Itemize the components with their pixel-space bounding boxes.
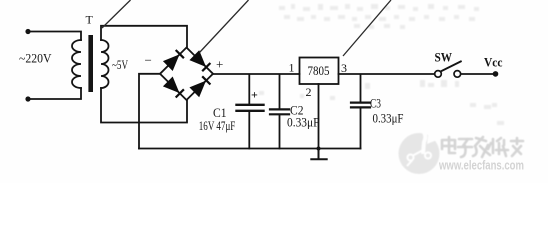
svg-text:7805: 7805 (308, 64, 330, 78)
svg-text:~5V: ~5V (112, 58, 128, 72)
node: Vcc terminal dot (493, 71, 499, 77)
leader line to bridge (200, 0, 249, 53)
svg-text:SW: SW (435, 51, 453, 65)
diode D3 (left corner to bottom corner) (164, 77, 184, 97)
switch SW contact circles (435, 71, 442, 78)
transformer T core (88, 35, 93, 92)
svg-text:0.33μF: 0.33μF (373, 112, 404, 126)
node: AC input terminal top (25, 29, 30, 34)
svg-text:C1: C1 (213, 106, 227, 120)
capacitor C1 leads (248, 75, 250, 149)
svg-text:+: + (216, 57, 223, 72)
diode D2 (top corner to right corner) (190, 51, 210, 71)
svg-text:C3: C3 (370, 97, 381, 111)
wire: 7805 pin2 down to rail (318, 84, 320, 149)
svg-text:2: 2 (306, 85, 312, 99)
switch SW lever (441, 61, 461, 71)
wire: 7805 pin3 output rail to switch (339, 73, 435, 75)
leader line to transformer (102, 0, 131, 28)
svg-text:~220V: ~220V (19, 52, 52, 66)
svg-text:1: 1 (289, 61, 295, 75)
node: AC input terminal bottom (25, 96, 30, 101)
capacitor C1 plates (237, 105, 264, 111)
svg-text:3: 3 (341, 61, 347, 75)
main schematic ink (25, 26, 498, 160)
regulator U1 7805 box (300, 58, 339, 85)
svg-text:0.33μF: 0.33μF (287, 116, 320, 130)
wire: switch to Vcc terminal (461, 73, 496, 75)
leader line to 7805 (343, 0, 391, 56)
transformer T primary winding (72, 40, 81, 88)
ground symbol (311, 149, 326, 160)
wire: secondary bottom to bridge bottom corner (101, 88, 187, 123)
capacitor C2 leads (279, 75, 281, 149)
watermark ghost noise top right (279, 4, 479, 29)
bridge rectifier diamond outline (160, 48, 213, 101)
wire: positive rail from bridge + to 7805 pin1 (213, 73, 300, 75)
diode D4 (bottom corner to right corner) (190, 76, 210, 96)
watermark text: 电子发烧友 (stroke approximation) (442, 137, 523, 157)
capacitor C3 plates (351, 103, 370, 108)
watermark logo circle (399, 128, 440, 174)
svg-text:+: + (251, 88, 258, 102)
wire: AC bottom to primary (28, 88, 81, 99)
capacitor C2 plates (270, 109, 289, 114)
watermark ghost noise under switch (259, 80, 504, 125)
svg-text:−: − (145, 53, 152, 68)
svg-text:T: T (86, 13, 94, 27)
wire: ground rail bottom (139, 148, 361, 150)
capacitor C3 leads (360, 75, 362, 149)
wire: secondary top to bridge top corner (101, 26, 187, 48)
diode D1 (left corner to top corner) (164, 50, 184, 70)
node: pin2-rail junction (317, 147, 321, 151)
wire: AC top to primary (28, 32, 81, 41)
wire: bridge minus corner down to ground rail (139, 74, 160, 149)
transformer T secondary winding (101, 40, 109, 88)
svg-text:Vcc: Vcc (484, 56, 503, 70)
svg-text:16V 47μF: 16V 47μF (199, 119, 236, 133)
svg-text:www.elecfans.com: www.elecfans.com (438, 159, 524, 173)
